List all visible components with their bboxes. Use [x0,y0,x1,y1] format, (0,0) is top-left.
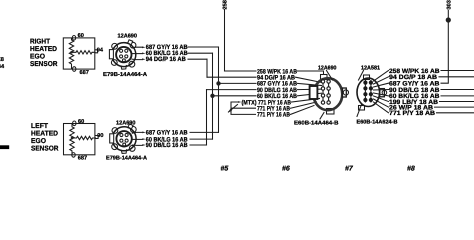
svg-text:EGO: EGO [31,138,47,145]
pointer line part no (12A581) [357,105,362,117]
wire 90 vertical run [206,90,208,145]
wire 258 W/PK 16 AB (right) [374,71,389,82]
wire 60 vertical run [212,53,214,139]
arrow to MTX [238,101,241,103]
off-page arrow (771) [229,105,238,113]
svg-text:E8: E8 [0,57,4,63]
svg-text:771 P/Y 18 AB: 771 P/Y 18 AB [389,110,435,117]
svg-text:94: 94 [97,48,104,54]
wire 94 DG/P 18 AB (right) [374,77,389,84]
wire 771 bus bracket [231,102,256,114]
splice 303 [446,17,451,22]
svg-text:#8: #8 [407,166,415,173]
connector C101 12A690 (engine harness) [310,75,349,115]
svg-text:258: 258 [223,0,229,9]
wire 199 LB/Y 18 AB (right) [374,96,389,102]
junction 687 / circuit 687 to C101 [216,81,220,85]
12A581 top tab [364,75,370,80]
right EGO sensor body box [63,38,95,69]
connector C101 mate 12A581 [357,75,387,110]
right sensor connector 12A690 [109,40,136,69]
wire 90 DB/LG 16 AB (left sensor) [132,144,142,146]
svg-text:90: 90 [97,133,103,139]
wire 94 DG/P 16 AB row [207,76,256,78]
junction heater tap [70,51,73,54]
C101 shell ring [314,78,343,110]
page edge mark [0,145,9,149]
left sensor pin 687 (bottom) [72,153,75,158]
left EGO sensor body box [64,124,95,155]
svg-text:HEATED: HEATED [30,46,57,53]
wire 60 BK/LG 16 AB (left sensor) [132,138,142,140]
label RIGHT HEATED EGO SENSOR [30,39,58,69]
wire 60 BK/LG 16 AB row [213,95,257,97]
pointer line part no (C101) [320,113,324,120]
connector pins [120,49,123,52]
svg-text:(MTX): (MTX) [242,99,257,106]
svg-text:60: 60 [78,119,84,125]
connector tab (bottom) [121,65,126,69]
connector tab (bottom) [121,150,126,154]
wire 687 GY/Y 16 AB (right sensor) [132,46,142,49]
label LEFT HEATED EGO SENSOR [31,123,59,152]
C101 left tab [310,86,318,99]
wire 687 vertical run [218,47,220,132]
connector inner ring [116,131,131,146]
connector inner ring [116,47,131,62]
svg-text:E79B-14A464-A: E79B-14A464-A [103,72,147,78]
C101 pins [321,80,330,104]
left sensor pin 90 (right) [96,136,99,139]
right sensor pin 687 (bottom) [73,67,76,72]
connector key notch (left) [110,134,114,143]
connector key notch (left) [109,50,113,59]
left sensor heater resistor (horizontal) [72,136,96,139]
right sensor heater resistor (horizontal) [72,51,96,54]
svg-text:LEFT: LEFT [31,123,49,130]
right sensor pin 94 (right) [95,50,98,53]
12A581 right tab [380,89,385,97]
connector pins [120,133,123,136]
left sensor connector 12A690 [110,124,137,153]
page edge faint text [0,57,5,70]
wire 90 DB/LG 16 AB row [207,89,257,91]
left sensor element resistor (vertical) [70,124,74,156]
svg-text:E60B-14A624-B: E60B-14A624-B [357,120,398,126]
svg-text:RIGHT: RIGHT [30,39,51,46]
svg-text:60: 60 [78,33,84,39]
svg-text:90 DB/LG 16 AB: 90 DB/LG 16 AB [146,142,188,149]
svg-text:E60B-14A464-B: E60B-14A464-B [294,121,339,127]
svg-text:687: 687 [80,70,89,76]
wire to C101 pin: 258 W/PK 16 AB [225,70,257,72]
wire 26 W/P 18 AB (right) [374,99,389,107]
svg-text:E79B-14A464-A: E79B-14A464-A [106,155,147,161]
svg-text:#6: #6 [282,166,290,173]
svg-text:#5: #5 [221,166,229,173]
C101 bottom tab [327,109,335,115]
svg-text:#7: #7 [345,166,354,173]
svg-text:SENSOR: SENSOR [31,145,59,152]
wire 94 vertical run [206,59,208,77]
svg-text:12A690: 12A690 [116,119,136,126]
svg-text:12A690: 12A690 [318,65,337,72]
svg-text:EGO: EGO [30,54,46,61]
12A581 pins (sockets) [363,81,373,103]
right sensor pin 60 (top) [72,36,75,41]
wire 687 GY/Y 16 AB (right) to 303 [374,83,389,87]
wire 258 from top [224,10,226,72]
C101 right tab [343,88,347,97]
svg-text:HEATED: HEATED [31,130,58,137]
svg-text:303: 303 [447,0,453,9]
svg-text:12A690: 12A690 [118,33,138,40]
wire 687 GY/Y 16 AB row [219,82,257,84]
svg-text:SENSOR: SENSOR [30,61,58,68]
wire 90 DB/LG 18 AB (right) [374,89,389,92]
svg-text:687: 687 [78,155,87,161]
wire 94 DG/P 16 AB (right sensor) [132,58,142,60]
left sensor pin 60 (top) [73,121,76,126]
junction 60 [210,94,214,98]
wire 687 GY/Y 16 AB (left sensor) [132,131,142,134]
pointer line 12A690 [327,71,333,81]
junction heater tap (left sensor) [71,137,74,140]
connector tab (top) [128,40,133,45]
right sensor element resistor (vertical) [69,38,73,69]
wire 771 P/Y 18 AB (right) [374,102,389,113]
12A581 bottom tab [359,106,365,111]
connector tab (top) [128,124,133,129]
svg-text:94 DG/P 16 AB: 94 DG/P 16 AB [146,56,186,63]
wire 60 BK/LG 16 AB (right sensor) [132,53,142,55]
C101 top notch [321,75,328,80]
wire 60 BK/LG 16 AB (right) [374,93,389,96]
svg-text:771 P/Y 16 AB: 771 P/Y 16 AB [257,112,290,119]
pointer line 12A581 [359,71,364,81]
